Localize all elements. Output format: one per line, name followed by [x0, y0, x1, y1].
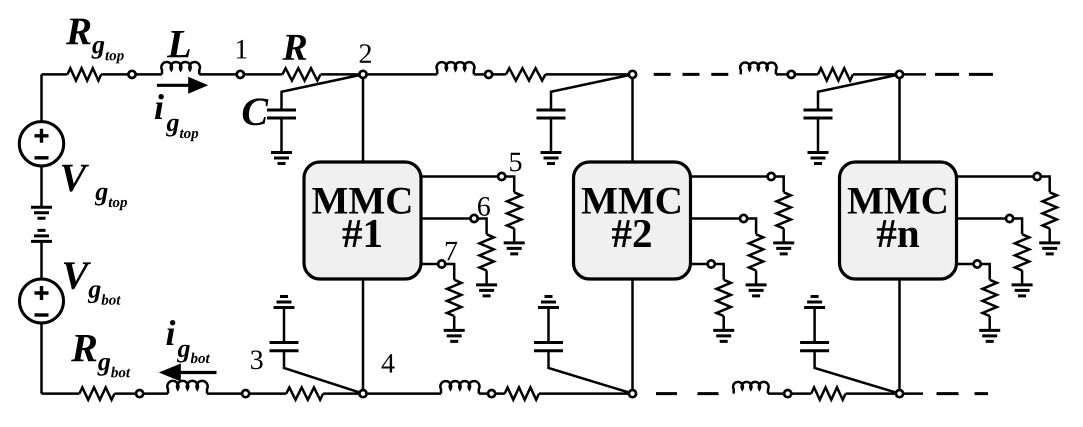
- ground below pin resistor #1.3: [444, 330, 465, 341]
- wire top rail: source column to R_g_top: [42, 73, 68, 76]
- wire MMC #n pin 3 horizontal: [957, 263, 978, 266]
- resistor at pin #2 pin 2: [749, 234, 763, 270]
- wire slant node to top capacitor C2: [551, 74, 633, 110]
- resistor at pin #2 pin 3: [717, 280, 731, 316]
- pin node #n pin 1: [1034, 173, 1041, 180]
- wire MMC #1 pin 1 horizontal: [421, 175, 502, 178]
- capacitor bottom section 1: [270, 343, 299, 351]
- dashed wire after MMC2 top node: [654, 73, 730, 76]
- wire top node to MMC #n block: [898, 74, 901, 162]
- wire R to node 2: [321, 73, 364, 76]
- node top of MMC #n: [896, 71, 903, 78]
- wire MMC #2 pin 2 horizontal: [691, 217, 744, 220]
- wire V_g_top to ground: [40, 166, 43, 207]
- dashed wire bottom right: [937, 392, 989, 395]
- inductor bottom left: [167, 381, 207, 394]
- resistor bottom section 2: [505, 387, 539, 399]
- MMC block #2: [574, 162, 691, 279]
- inductor bottom section 3: [733, 382, 769, 394]
- wire slant bottom node to capacitor 2: [549, 351, 633, 394]
- wire L to node 1: [199, 73, 240, 76]
- ground below pin resistor #2.3: [713, 330, 734, 341]
- resistor R_g_top: [68, 68, 102, 80]
- wire MMC #2 block to bottom node: [631, 279, 634, 394]
- wire resistor #n.1 to ground: [1048, 229, 1051, 243]
- label R_g_bot: [71, 335, 130, 377]
- wire resistor to MMCn bottom node: [846, 392, 899, 395]
- wire resistor to MMCn top node: [853, 73, 900, 76]
- wire MMCn bottom node stub right: [899, 392, 923, 395]
- label L: [167, 31, 190, 57]
- wire MMC #1 pin 3 horizontal: [421, 263, 442, 266]
- wire MMC #n pin 1 horizontal: [957, 175, 1038, 178]
- wire resistor to MMC2 bottom node: [539, 392, 632, 395]
- wire pin node to resistor #2.1: [775, 177, 784, 193]
- capacitor bottom section 2: [534, 343, 563, 351]
- ground below top capacitor 2: [541, 153, 562, 164]
- wire MMC #n block to bottom node: [898, 279, 901, 394]
- node 1: [237, 71, 244, 78]
- resistor bottom section 3: [811, 387, 845, 399]
- voltage source V_g_top: [19, 122, 63, 166]
- wire bottom capacitor 1 to inverted ground: [283, 308, 286, 343]
- wire resistor #1.1 to ground: [513, 229, 516, 243]
- pin node 7: [438, 260, 445, 267]
- wire slant node to top capacitor Cn: [818, 74, 900, 110]
- label C: [243, 98, 269, 125]
- wire resistor to node 4: [323, 392, 364, 395]
- wire top capacitor C2 to ground: [550, 118, 553, 152]
- label node 6: [478, 197, 490, 216]
- wire resistor #2.1 to ground: [782, 229, 785, 243]
- label node 7: [446, 242, 457, 260]
- resistor at pin #n pin 2: [1015, 234, 1029, 270]
- wire resistor #n.2 to ground: [1021, 271, 1024, 285]
- resistor R_g_bot: [79, 387, 114, 399]
- wire pin node to resistor #2.3: [715, 264, 724, 280]
- ground below pin resistor #n.2: [1012, 285, 1033, 296]
- pin node #2 pin 3: [708, 260, 715, 267]
- wire resistor #1.2 to ground: [485, 271, 488, 285]
- resistor bottom left: [286, 387, 323, 399]
- wire inductor to mid node (bottom sec 3): [768, 392, 788, 395]
- wire MMC #n pin 2 horizontal: [957, 217, 1010, 220]
- label V_g_top: [62, 165, 127, 210]
- wire inductor to mid node (top sec 2): [474, 73, 489, 76]
- wire pin node to resistor #n.2: [1013, 219, 1022, 235]
- label i_g_top: [155, 94, 198, 141]
- wire node 3 to bottom resistor: [246, 392, 287, 395]
- node bottom of MMC #n: [896, 390, 903, 397]
- wire R_g_top to node: [101, 73, 132, 76]
- wire node to bottom inductor: [140, 392, 168, 395]
- wire bottom capacitor 2 to inverted ground: [547, 308, 550, 343]
- wire mid node to resistor (top sec 3): [791, 73, 818, 76]
- wire pin node to resistor #1.3: [445, 264, 454, 280]
- wire top node to MMC #2 block: [631, 74, 634, 162]
- dashed wire after MMC2 bottom node: [656, 392, 720, 395]
- resistor at pin 6: [479, 234, 493, 270]
- label node 5: [510, 153, 521, 172]
- ground below pin resistor #1.1: [504, 243, 525, 254]
- junction node after R_g_top: [128, 71, 135, 78]
- wire pin node to resistor #n.1: [1041, 177, 1050, 193]
- wire MMC #1 pin 2 horizontal: [421, 217, 474, 220]
- wire resistor #n.3 to ground: [988, 316, 991, 330]
- capacitor top section 2: [537, 110, 566, 118]
- resistor at pin 7: [447, 280, 461, 316]
- pin node #2 pin 2: [740, 215, 747, 222]
- resistor at pin #n pin 3: [983, 280, 997, 316]
- wire MMC #2 pin 1 horizontal: [691, 175, 772, 178]
- ground below pin resistor #n.1: [1039, 243, 1060, 254]
- junction node bottom section 2: [488, 390, 495, 397]
- wire node 1 to R: [240, 73, 282, 76]
- resistor top section 2: [506, 68, 545, 80]
- label V_g_bot: [64, 262, 121, 304]
- label node 4: [382, 354, 395, 372]
- ground below pin resistor #1.2: [476, 285, 497, 296]
- current arrow i_g_bot (leftward): [159, 364, 217, 382]
- ground below pin resistor #2.1: [773, 243, 794, 254]
- wire inductor to node 3: [207, 392, 246, 395]
- node bottom of MMC #2: [629, 390, 636, 397]
- label i_g_bot: [166, 320, 210, 363]
- pin node 5: [498, 173, 505, 180]
- node bottom of MMC #1: [359, 390, 366, 397]
- label R: [282, 35, 306, 60]
- junction node top section 3: [788, 71, 795, 78]
- wire pin node to resistor #2.2: [747, 219, 756, 235]
- inverted ground above bottom capacitor 1: [274, 297, 295, 308]
- junction node top section 2: [485, 71, 492, 78]
- wire resistor #2.3 to ground: [722, 316, 725, 330]
- wire top capacitor C1 to ground: [280, 118, 283, 152]
- wire mid node to resistor (bottom sec 3): [788, 392, 812, 395]
- wire bottom rail: source column to R_g_bot: [42, 392, 80, 395]
- pin node #2 pin 1: [768, 173, 775, 180]
- wire pin node to resistor #1.2: [478, 219, 487, 235]
- capacitor bottom section n: [800, 343, 829, 351]
- label node 3: [251, 350, 263, 369]
- wire inductor to mid node (bottom sec 2): [479, 392, 492, 395]
- inverted ground above bottom capacitor 2: [538, 297, 559, 308]
- junction node after R_g_bot: [136, 390, 143, 397]
- MMC block #1: [304, 162, 421, 279]
- label R_g_top: [66, 19, 124, 64]
- MMC block #n: [840, 162, 957, 279]
- inductor bottom section 2: [440, 381, 479, 393]
- wire left column top (source to top rail): [40, 74, 43, 122]
- wire slant bottom node to capacitor n: [815, 351, 900, 394]
- inverted ground above bottom capacitor n: [804, 297, 825, 308]
- resistor at pin #n pin 1: [1042, 192, 1056, 228]
- resistor R: [282, 68, 320, 80]
- wire V_g_bot to bottom rail: [40, 323, 43, 394]
- ground below top capacitor 1: [271, 153, 292, 164]
- wire slant node to top capacitor C1: [282, 74, 364, 110]
- wire resistor #1.3 to ground: [453, 316, 456, 330]
- wire MMC #1 block to bottom node: [362, 279, 365, 394]
- wire MMC #2 pin 3 horizontal: [691, 263, 712, 266]
- pin node #n pin 3: [974, 260, 981, 267]
- inductor top section 2: [437, 62, 475, 74]
- wire node to inductor L: [132, 73, 162, 76]
- wire MMCn top node stub right: [900, 73, 927, 76]
- node top of MMC #2: [629, 71, 636, 78]
- resistor at pin 5: [507, 192, 521, 228]
- wire top node to MMC #1 block: [362, 74, 365, 162]
- pin node #n pin 2: [1006, 215, 1013, 222]
- wire top capacitor Cn to ground: [817, 118, 820, 152]
- wire resistor #2.2 to ground: [755, 271, 758, 285]
- voltage source V_g_bot: [20, 279, 64, 323]
- wire pin node to resistor #1.1: [505, 177, 514, 193]
- ground below V_g_top: [31, 207, 52, 218]
- pin node 6: [471, 215, 478, 222]
- wire bottom capacitor n to inverted ground: [813, 308, 816, 343]
- wire node 2 to section-2 inductor: [363, 73, 437, 76]
- resistor at pin #2 pin 1: [777, 192, 791, 228]
- node top of MMC #1: [359, 71, 366, 78]
- junction node bottom section 3: [784, 390, 791, 397]
- wire mid node to resistor (bottom sec 2): [492, 392, 505, 395]
- node 3: [242, 390, 249, 397]
- label node 1: [237, 40, 247, 58]
- inductor top section 3: [740, 62, 776, 74]
- ground below pin resistor #n.3: [979, 330, 1000, 341]
- wire resistor to MMC2 top node: [545, 73, 632, 76]
- capacitor top section 1: [267, 110, 296, 118]
- wire inductor to mid node (top sec 3): [776, 73, 791, 76]
- ground below pin resistor #2.2: [746, 285, 767, 296]
- wire inverted ground to V_g_bot: [40, 241, 43, 279]
- wire mid node to resistor (top sec 2): [489, 73, 506, 76]
- wire pin node to resistor #n.3: [981, 264, 990, 280]
- wire R_g_bot to node: [115, 392, 140, 395]
- capacitor top section n: [804, 110, 833, 118]
- ground above V_g_bot (inverted): [31, 230, 52, 241]
- dashed wire top right: [935, 73, 994, 76]
- label node 2: [360, 44, 371, 63]
- resistor top section 3: [818, 68, 853, 80]
- wire slant bottom node to capacitor 1: [284, 351, 363, 394]
- ground below top capacitor n: [808, 153, 829, 164]
- current arrow i_g_top (rightward): [157, 77, 208, 94]
- inductor L: [161, 62, 200, 74]
- wire node 4 to bottom section-2 inductor: [364, 392, 441, 395]
